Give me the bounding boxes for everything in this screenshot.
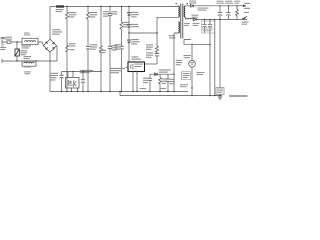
wire opto pins bottom	[72, 88, 78, 92]
diode D3	[128, 39, 140, 62]
wire bulk-opto rail	[62, 71, 102, 72]
node L input terminal	[1, 37, 5, 44]
resistor R4 on drain branch	[146, 44, 159, 52]
wire neutral riser to bridge	[56, 46, 58, 61]
inductor L3	[184, 18, 193, 26]
diode D2	[128, 24, 140, 40]
wire secondary bottom to rail2	[184, 17, 187, 19]
node output terminal	[243, 3, 250, 9]
capacitor C10 output	[217, 1, 225, 20]
primary ground bus	[50, 88, 188, 92]
diode D5	[192, 15, 248, 26]
label AC input	[0, 47, 6, 50]
wire primary bottom to drain	[157, 16, 178, 18]
varistor RV1	[15, 42, 27, 61]
fusible resistor RF1 on bus	[56, 5, 64, 12]
capacitor C9 bulk branch	[51, 72, 64, 92]
diode D4 output	[187, 1, 246, 11]
transformer T1 primary winding	[176, 3, 180, 17]
capacitor C14 Y-cap	[216, 19, 224, 97]
top bus wire	[50, 6, 178, 8]
resistor R5 branch	[159, 74, 168, 91]
node N input terminal	[1, 59, 3, 63]
wire drain to IC	[145, 63, 158, 65]
bridge rectifier BR1	[44, 29, 63, 52]
capacitor C8 branch	[166, 74, 175, 91]
shunt regulator U3 TL431	[184, 44, 196, 96]
node junction neutral/MOV	[16, 60, 17, 61]
label T1	[169, 35, 176, 38]
capacitor C15 branch	[81, 71, 85, 92]
ground output return	[242, 12, 249, 25]
resistor R2 branch	[87, 6, 98, 47]
label R divider	[197, 72, 205, 75]
capacitor C13 output filter	[208, 19, 212, 97]
wire feedback tap	[184, 40, 211, 46]
node feedback lower	[180, 84, 193, 89]
wire fuse to choke	[11, 41, 22, 43]
wire secondary ground rail	[120, 91, 222, 96]
resistor R1 branch	[66, 6, 77, 47]
optocoupler U2	[66, 70, 94, 88]
capacitor C12 output filter	[202, 19, 206, 33]
capacitor C6 on drain branch	[146, 52, 159, 64]
wire drain line	[156, 17, 157, 46]
label L1	[24, 33, 31, 36]
diode D6 bias	[155, 69, 171, 75]
wire line input	[2, 41, 7, 43]
box output filter group	[202, 21, 215, 33]
node snubber junction	[128, 32, 129, 33]
resistor R1B mid on R1 branch	[66, 43, 76, 91]
resistor R6 preload	[234, 1, 240, 20]
inductor L1.A common-mode choke top	[22, 38, 39, 48]
capacitor C2 on R2 branch	[86, 44, 98, 91]
ground secondary	[218, 97, 222, 99]
wire DC minus to ground bus	[49, 52, 51, 91]
wire DC plus riser	[49, 7, 51, 40]
fuse F1	[5, 37, 12, 44]
transformer T1 secondary winding	[184, 3, 188, 17]
wire bias winding branch	[173, 33, 182, 92]
wire opto pins top	[68, 72, 73, 78]
label note earth	[24, 71, 31, 74]
wire U1 source pins to bus	[133, 72, 137, 92]
op-amp U1 switcher IC	[128, 56, 145, 71]
wire bias feedback rail	[150, 73, 174, 75]
transformer T1 core	[181, 4, 183, 39]
wire snubber return	[129, 32, 157, 34]
label watermark	[229, 95, 248, 97]
node junction neutral choke	[35, 60, 36, 61]
capacitor C7 branch	[143, 74, 152, 91]
node junction line/MOV	[16, 41, 17, 42]
wire divider branch	[214, 19, 215, 97]
resistor R3 branch	[120, 6, 129, 47]
capacitor C5 on R3 branch	[115, 44, 124, 91]
inductor L1.B common-mode choke bottom	[22, 56, 36, 68]
wire neutral	[2, 60, 57, 62]
capacitor C11 output	[225, 1, 233, 20]
capacitor C4 branch	[103, 6, 117, 47]
resistor R7 boxed label	[182, 72, 191, 80]
resistor R3B branch	[99, 6, 106, 92]
capacitor C4B mid on C4 branch	[108, 45, 118, 92]
wire U1 EN pin	[110, 67, 128, 73]
transformer T1 bias winding	[174, 22, 179, 33]
diode D1	[128, 6, 140, 25]
ground earth input	[1, 45, 4, 46]
wire choke to bridge	[38, 42, 44, 46]
